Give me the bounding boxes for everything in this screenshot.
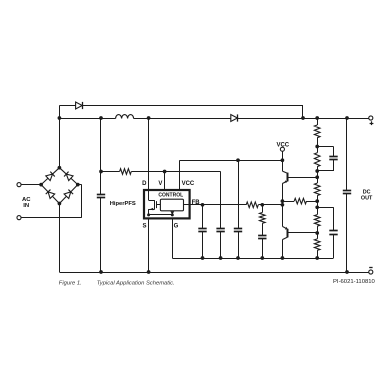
svg-text:CONTROL: CONTROL [158,193,183,199]
svg-text:V: V [158,181,162,187]
svg-text:FB: FB [192,200,201,206]
svg-text:OUT: OUT [361,196,373,202]
svg-text:Typical Application Schematic.: Typical Application Schematic. [97,280,175,286]
svg-text:Figure 1.: Figure 1. [59,280,82,286]
svg-text:IN: IN [23,203,29,209]
svg-text:S: S [142,223,146,229]
svg-text:HiperPFS: HiperPFS [110,201,136,207]
svg-text:DC: DC [363,189,371,195]
svg-text:VCC: VCC [182,181,195,187]
svg-text:G: G [174,223,179,229]
svg-text:D: D [142,181,147,187]
svg-text:PI-6021-110810: PI-6021-110810 [333,279,376,285]
svg-text:VCC: VCC [276,143,289,149]
